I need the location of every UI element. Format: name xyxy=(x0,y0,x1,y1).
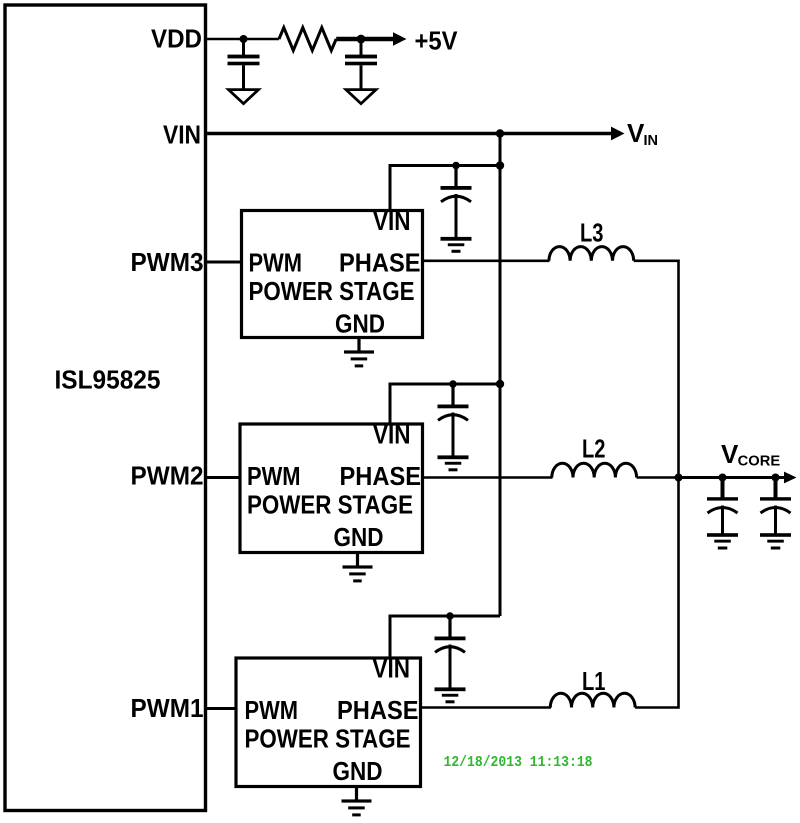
svg-text:GND: GND xyxy=(334,522,384,552)
svg-text:IN: IN xyxy=(644,133,659,149)
svg-text:VIN: VIN xyxy=(163,120,201,150)
wire VDD pin to R1 xyxy=(206,38,280,41)
wire L2 to VCORE bus xyxy=(637,476,679,479)
wire U4 VIN stub xyxy=(390,616,500,658)
ground symbol U2 GND xyxy=(344,350,374,367)
capacitor C4 xyxy=(438,384,469,457)
wire PWM3 xyxy=(206,261,242,264)
junction node C5 xyxy=(446,612,454,620)
junction node C3 xyxy=(452,162,460,170)
svg-text:12/18/2013 11:13:18: 12/18/2013 11:13:18 xyxy=(444,755,593,771)
junction node C6 xyxy=(719,474,727,482)
svg-text:PWM: PWM xyxy=(247,461,301,491)
net label V_CORE xyxy=(721,439,781,469)
svg-text:POWER STAGE: POWER STAGE xyxy=(249,276,415,306)
wire VIN vertical bus xyxy=(499,134,502,617)
svg-text:V: V xyxy=(721,439,739,469)
wire PWM2 xyxy=(206,476,241,479)
capacitor C6 xyxy=(707,478,738,535)
svg-text:PHASE: PHASE xyxy=(339,248,421,278)
arrowhead VCORE xyxy=(784,472,797,484)
svg-text:PWM3: PWM3 xyxy=(131,247,204,277)
wire L3 output / VCORE bus / L1 output xyxy=(634,261,679,708)
ground for C4 xyxy=(438,455,469,471)
ground symbol U4 GND xyxy=(342,799,372,816)
svg-text:VDD: VDD xyxy=(151,24,202,54)
ground for C7 xyxy=(760,533,791,549)
capacitor C7 xyxy=(760,478,791,535)
ground for C5 xyxy=(435,687,466,703)
svg-text:PWM: PWM xyxy=(245,695,299,725)
junction node VDD/C1 xyxy=(240,35,248,43)
svg-text:POWER STAGE: POWER STAGE xyxy=(245,724,411,754)
power stage U3 box (middle) xyxy=(240,424,423,553)
junction node VCORE bus xyxy=(675,474,683,482)
junction node C2 xyxy=(357,35,366,44)
inductor L3 xyxy=(549,247,634,261)
analog ground triangle for C1 xyxy=(229,90,259,104)
capacitor C3 xyxy=(441,166,472,239)
ground for C3 xyxy=(441,237,472,253)
svg-text:GND: GND xyxy=(333,756,383,786)
ground symbol U3 GND xyxy=(343,565,373,582)
net label V_IN xyxy=(627,118,658,149)
svg-text:GND: GND xyxy=(335,309,385,339)
junction node C7 xyxy=(772,474,780,482)
capacitor C1 xyxy=(228,39,260,91)
wire U2 VIN stub xyxy=(390,166,500,211)
arrowhead VIN xyxy=(611,127,625,141)
svg-text:L2: L2 xyxy=(582,434,606,464)
junction node VIN bus xyxy=(496,129,504,137)
wire PWM1 xyxy=(206,707,237,710)
svg-text:PWM2: PWM2 xyxy=(131,461,204,491)
svg-text:VIN: VIN xyxy=(373,420,411,450)
ground for C6 xyxy=(707,533,738,549)
svg-text:PWM: PWM xyxy=(249,248,303,278)
junction node U3 stub / bus xyxy=(496,380,504,388)
IC U1 ISL95825 box xyxy=(5,5,206,811)
inductor L1 xyxy=(550,693,635,707)
resistor R1 xyxy=(279,28,336,51)
wire U4 PHASE to L1 xyxy=(421,706,552,709)
analog ground triangle for C2 xyxy=(346,90,376,104)
wire U2 PHASE to L3 xyxy=(423,259,550,262)
svg-text:POWER STAGE: POWER STAGE xyxy=(247,490,413,520)
capacitor C2 xyxy=(345,39,377,91)
inductor L2 xyxy=(552,463,637,477)
svg-text:VIN: VIN xyxy=(373,206,411,236)
wire U3 PHASE to L2 xyxy=(423,476,553,479)
power stage U4 box (bottom) xyxy=(236,658,421,787)
svg-text:L3: L3 xyxy=(580,218,604,248)
ground lead U3 GND xyxy=(356,553,359,567)
junction node C4 xyxy=(449,380,457,388)
svg-text:+5V: +5V xyxy=(415,26,459,56)
wire R1 to +5V arrow xyxy=(336,37,394,42)
wire VCORE output xyxy=(679,476,786,479)
junction node U2 stub / bus xyxy=(496,161,504,169)
wire VIN rail xyxy=(206,132,613,136)
svg-text:CORE: CORE xyxy=(738,454,781,470)
svg-text:V: V xyxy=(627,118,645,148)
wire U3 VIN stub xyxy=(390,384,500,424)
svg-text:PHASE: PHASE xyxy=(340,461,422,491)
svg-text:PHASE: PHASE xyxy=(337,695,419,725)
ground lead U4 GND xyxy=(355,787,358,801)
svg-text:ISL95825: ISL95825 xyxy=(55,365,161,395)
svg-text:PWM1: PWM1 xyxy=(131,693,204,723)
power stage U2 box (top) xyxy=(242,211,423,338)
ground lead U2 GND xyxy=(357,338,360,352)
capacitor C5 xyxy=(435,616,466,689)
svg-text:L1: L1 xyxy=(582,666,606,696)
arrowhead +5V xyxy=(393,32,407,45)
